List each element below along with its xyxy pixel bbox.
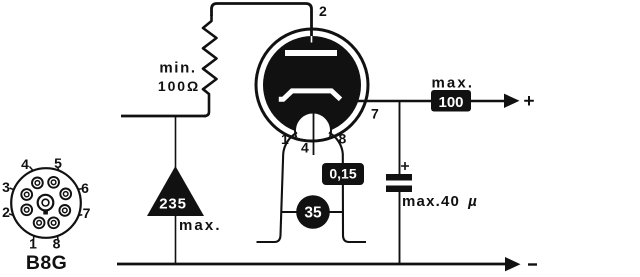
base pin 2 (21, 204, 32, 215)
base pin 4 (32, 178, 43, 189)
capacitor C1 plates (386, 174, 412, 192)
heater connector wires (281, 211, 343, 213)
heater voltage circle 35 (296, 195, 330, 229)
svg-text:min.: min. (159, 60, 196, 77)
base center spigot (38, 195, 54, 215)
base label 3 (2, 179, 13, 195)
pin 7 label (371, 106, 379, 122)
base pin 3 (21, 189, 32, 200)
wire: left horizontal from resistor bottom (121, 115, 206, 118)
wire: vertical through triangle (175, 116, 177, 264)
base pin 7 (59, 205, 70, 216)
arrow - output (505, 257, 537, 271)
label max. under triangle (179, 217, 222, 234)
base label 1 (29, 236, 37, 252)
anode lead stub (white inside disc) (311, 36, 313, 43)
svg-text:100: 100 (438, 94, 463, 111)
label max.40u (402, 193, 478, 210)
base pin 1 (34, 217, 45, 228)
label min. 100 ohm (158, 60, 200, 95)
svg-text:B8G: B8G (26, 252, 67, 274)
base pin 5 (48, 177, 59, 188)
svg-text:4: 4 (21, 156, 29, 172)
wire: bottom rail (117, 263, 506, 266)
anode plate bar (285, 50, 337, 56)
base label 8 (53, 236, 61, 252)
svg-text:2: 2 (2, 204, 10, 220)
arrow + output (504, 94, 534, 108)
pin 4 lead (313, 113, 315, 156)
wire: capacitor branch lower (399, 192, 401, 264)
base label 4 (21, 156, 33, 172)
svg-text:2: 2 (319, 3, 327, 19)
wire: cathode to + output (340, 100, 505, 103)
heater dome (295, 113, 331, 149)
output voltage box 100 (431, 90, 471, 112)
mains triangle 235 (147, 166, 204, 216)
wire top: resistor top to tube pin 2 (212, 4, 312, 41)
resistor R1 (203, 15, 217, 116)
svg-text:6: 6 (81, 180, 89, 196)
svg-text:0,15: 0,15 (329, 166, 356, 182)
cathode chevron (279, 91, 341, 99)
label max. above 100 box (432, 75, 475, 92)
svg-text:4: 4 (301, 140, 309, 156)
svg-text:35: 35 (304, 205, 322, 222)
svg-text:7: 7 (83, 205, 91, 221)
svg-text:235: 235 (159, 196, 186, 213)
svg-text:100Ω: 100Ω (158, 78, 200, 94)
svg-text:7: 7 (371, 106, 379, 122)
pin 8 lead wire (329, 133, 366, 243)
svg-text:3: 3 (2, 179, 10, 195)
heater current label 0,15 (322, 163, 364, 185)
pin 1 label (281, 131, 289, 147)
svg-text:max.: max. (179, 217, 222, 234)
base label 6 (78, 180, 89, 196)
base label 5 (54, 155, 62, 171)
svg-text:8: 8 (53, 236, 61, 252)
base pin 8 (48, 217, 59, 228)
pin 4 label (301, 140, 309, 156)
base label 2 (2, 204, 13, 220)
base label B8G (26, 252, 67, 274)
pin 8 label (339, 131, 347, 147)
pin 2 label (319, 3, 327, 19)
pin 1 lead wire (257, 133, 298, 243)
wire: capacitor branch upper (399, 101, 401, 174)
svg-text:max.: max. (432, 75, 475, 92)
base pin 6 (60, 189, 71, 200)
tube V1 envelope (256, 29, 368, 141)
base label 7 (78, 205, 91, 221)
tube base B8G outline (11, 168, 81, 238)
capacitor polarity + (401, 162, 409, 170)
